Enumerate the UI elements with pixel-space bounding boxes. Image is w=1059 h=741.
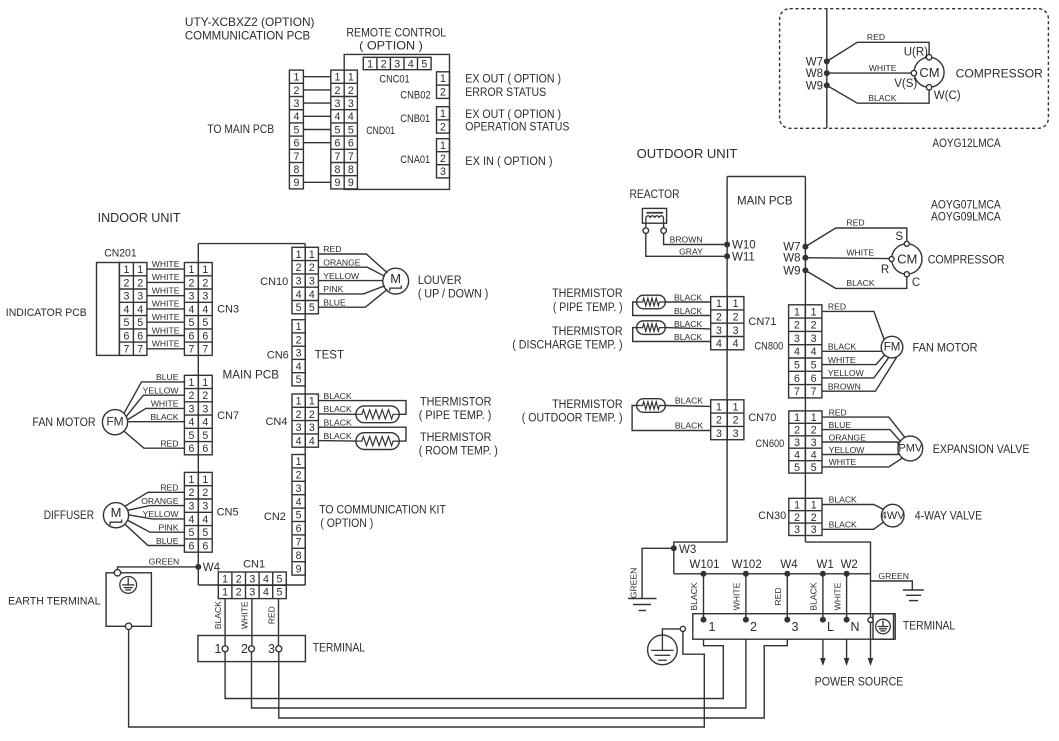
svg-text:2: 2 [137, 277, 143, 289]
svg-text:PINK: PINK [158, 523, 178, 533]
svg-text:1: 1 [440, 108, 446, 120]
earth screw circle small [680, 626, 685, 631]
svg-text:2: 2 [440, 87, 446, 99]
connector CN30 [789, 498, 822, 536]
svg-text:4: 4 [137, 304, 143, 316]
svg-text:1: 1 [348, 72, 354, 84]
svg-text:WHITE: WHITE [152, 299, 180, 309]
svg-text:RED: RED [773, 587, 783, 605]
svg-text:7: 7 [794, 386, 800, 398]
svg-text:4: 4 [408, 58, 414, 70]
svg-text:5: 5 [811, 462, 817, 474]
wire PCB right edge to bus right end [805, 542, 870, 617]
svg-text:BLACK: BLACK [324, 431, 352, 441]
svg-text:BLACK: BLACK [675, 421, 703, 431]
wire bus indoor terminal2 to outdoor terminal2 [252, 639, 746, 708]
svg-text:CNC01: CNC01 [379, 73, 409, 85]
svg-text:5: 5 [794, 360, 800, 372]
svg-text:7: 7 [296, 537, 302, 549]
svg-text:5: 5 [188, 430, 194, 442]
connector CNB01 2-pin [437, 107, 450, 134]
svg-text:BLACK: BLACK [674, 293, 702, 303]
node W8 [806, 68, 830, 80]
svg-text:CN1: CN1 [243, 559, 265, 571]
remote control PCB box [344, 54, 449, 189]
svg-text:CN10: CN10 [260, 276, 288, 288]
svg-text:WHITE: WHITE [833, 582, 843, 610]
svg-text:2: 2 [348, 85, 354, 97]
svg-text:1: 1 [188, 264, 194, 276]
svg-text:W9: W9 [783, 265, 800, 277]
svg-text:( OPTION ): ( OPTION ) [359, 39, 423, 53]
svg-text:W102: W102 [732, 559, 762, 571]
svg-text:BLACK: BLACK [674, 332, 702, 342]
svg-text:2: 2 [296, 335, 302, 347]
wire BLACK FM to CN7-4 [128, 412, 185, 422]
svg-text:EXPANSION VALVE: EXPANSION VALVE [933, 442, 1030, 456]
wire WHITE W8 to compressor V [827, 63, 911, 73]
wire GREEN W3 to ground [629, 548, 674, 598]
svg-text:RED: RED [160, 483, 178, 493]
svg-text:1: 1 [367, 58, 373, 70]
terminal 1 indoor [215, 642, 229, 656]
terminal V(S) [894, 70, 917, 89]
svg-text:6: 6 [188, 540, 194, 552]
svg-text:BLACK: BLACK [829, 519, 857, 529]
svg-text:4: 4 [335, 111, 341, 123]
svg-text:ERROR STATUS: ERROR STATUS [465, 87, 546, 99]
svg-text:7: 7 [202, 344, 208, 356]
svg-text:GREEN: GREEN [878, 571, 909, 581]
svg-text:LOUVER: LOUVER [418, 275, 462, 287]
svg-text:4: 4 [811, 346, 817, 358]
svg-text:WHITE: WHITE [732, 582, 742, 610]
svg-text:4: 4 [188, 417, 194, 429]
power source arrow N [844, 639, 850, 666]
terminal 3 outdoor [784, 617, 798, 634]
svg-text:2: 2 [202, 390, 208, 402]
svg-text:1: 1 [709, 620, 716, 634]
svg-text:TO COMMUNICATION KIT: TO COMMUNICATION KIT [319, 505, 446, 517]
svg-text:3: 3 [811, 333, 817, 345]
svg-text:3: 3 [188, 501, 194, 513]
wire RED W4 to terminal 3 [773, 574, 787, 620]
svg-text:1: 1 [811, 499, 817, 511]
svg-text:CM: CM [897, 252, 917, 267]
svg-text:3: 3 [716, 428, 722, 440]
svg-text:W4: W4 [780, 559, 798, 571]
svg-text:N: N [850, 620, 859, 634]
thermistor pipe temp (indoor) [356, 406, 399, 423]
bus wire W101-W2 [674, 573, 871, 575]
svg-text:W8: W8 [783, 253, 800, 265]
svg-text:2: 2 [733, 415, 739, 427]
wire YELLOW diffuser to CN5-4 [129, 509, 185, 519]
terminal 2 indoor [241, 642, 254, 656]
svg-text:WHITE: WHITE [846, 248, 874, 258]
svg-text:5: 5 [137, 317, 143, 329]
svg-text:1: 1 [794, 499, 800, 511]
svg-text:BLACK: BLACK [675, 395, 703, 405]
svg-text:( OPTION ): ( OPTION ) [320, 518, 373, 530]
svg-text:DIFFUSER: DIFFUSER [44, 508, 95, 522]
svg-text:4: 4 [296, 496, 302, 508]
svg-text:3: 3 [268, 642, 275, 656]
svg-text:CNB02: CNB02 [400, 90, 430, 102]
svg-text:3: 3 [811, 437, 817, 449]
svg-text:L: L [827, 620, 834, 634]
louver motor M [383, 268, 409, 294]
svg-text:2: 2 [123, 277, 129, 289]
diffuser motor M [103, 503, 128, 528]
svg-text:CN7: CN7 [217, 410, 239, 422]
wire YELLOW FM to CN7-2 [126, 385, 185, 417]
svg-text:W8: W8 [806, 68, 823, 80]
node W4 outdoor [780, 559, 798, 577]
label THERMISTOR OUTDOOR TEMP [522, 399, 623, 425]
svg-text:RED: RED [160, 438, 178, 448]
svg-text:CND01: CND01 [366, 125, 395, 137]
svg-text:2: 2 [236, 573, 242, 585]
wires between TO MAIN PCB connector and CND01 [303, 77, 330, 183]
svg-text:1: 1 [440, 73, 446, 85]
svg-text:YELLOW: YELLOW [323, 271, 360, 281]
svg-text:COMPRESSOR: COMPRESSOR [956, 66, 1044, 80]
svg-text:1: 1 [202, 474, 208, 486]
svg-text:1: 1 [123, 264, 129, 276]
svg-text:BLUE: BLUE [156, 372, 179, 382]
earth terminal bottom screw [125, 623, 131, 629]
svg-text:6: 6 [794, 373, 800, 385]
wire BLACK thermistor1 to CN71-1 [665, 293, 710, 303]
thermistor pipe temp sensor [637, 295, 666, 309]
svg-text:1: 1 [296, 396, 302, 408]
svg-text:THERMISTOR: THERMISTOR [420, 432, 491, 444]
svg-text:3: 3 [137, 291, 143, 303]
node W7 [806, 56, 830, 68]
svg-text:5: 5 [348, 124, 354, 136]
svg-text:1: 1 [440, 140, 446, 152]
svg-text:W9: W9 [806, 80, 823, 92]
svg-text:W3: W3 [679, 544, 696, 556]
svg-text:( PIPE TEMP. ): ( PIPE TEMP. ) [419, 410, 492, 422]
svg-text:CNB01: CNB01 [400, 113, 430, 125]
connector CNB02 2-pin [437, 72, 450, 99]
earth screw terminal outdoor [868, 617, 873, 622]
svg-text:3: 3 [792, 620, 799, 634]
svg-text:YELLOW: YELLOW [829, 445, 866, 455]
svg-text:COMPRESSOR: COMPRESSOR [928, 252, 1005, 266]
terminal U(R) [904, 46, 932, 60]
svg-text:3: 3 [733, 325, 739, 337]
svg-text:2: 2 [716, 311, 722, 323]
svg-text:7: 7 [137, 344, 143, 356]
terminal W(C) [926, 85, 960, 102]
svg-text:BLACK: BLACK [868, 93, 896, 103]
svg-text:WHITE: WHITE [828, 355, 856, 365]
svg-text:1: 1 [296, 456, 302, 468]
svg-text:BLACK: BLACK [689, 582, 699, 610]
svg-text:4: 4 [794, 449, 800, 461]
svg-text:REACTOR: REACTOR [630, 187, 680, 201]
svg-text:YELLOW: YELLOW [143, 509, 180, 519]
indoor terminal block [198, 636, 306, 662]
svg-text:1: 1 [733, 298, 739, 310]
svg-text:GREEN: GREEN [149, 557, 180, 567]
earth symbol in outdoor terminal [876, 619, 891, 634]
svg-text:CN600: CN600 [756, 438, 785, 450]
svg-text:S: S [895, 231, 903, 243]
svg-text:1: 1 [222, 573, 228, 585]
svg-text:3: 3 [293, 98, 299, 110]
label AOYG07LMCA AOYG09LMCA [931, 198, 1001, 224]
svg-text:1: 1 [716, 298, 722, 310]
svg-text:1: 1 [188, 474, 194, 486]
svg-text:CN6: CN6 [267, 349, 289, 361]
svg-text:1: 1 [137, 264, 143, 276]
svg-text:WHITE: WHITE [239, 601, 249, 629]
svg-text:9: 9 [335, 177, 341, 189]
node W7 outdoor [783, 242, 808, 254]
svg-text:FAN MOTOR: FAN MOTOR [913, 341, 978, 355]
svg-text:W7: W7 [806, 56, 823, 68]
wire BLACK W1 to terminal L [809, 574, 823, 620]
svg-text:4: 4 [716, 338, 722, 350]
svg-text:5: 5 [335, 124, 341, 136]
wire BLACK CN1-1 to terminal 1 [213, 599, 225, 646]
svg-text:2: 2 [794, 512, 800, 524]
svg-text:BLACK: BLACK [846, 278, 874, 288]
wire ORANGE CN600-3 to PMV [822, 432, 898, 444]
indoor MAIN PCB box [198, 244, 305, 585]
ground symbol right of outdoor terminal [903, 590, 924, 601]
svg-text:WHITE: WHITE [152, 272, 180, 282]
svg-text:R: R [881, 264, 889, 276]
label TO COMMUNICATION KIT [319, 505, 446, 530]
svg-text:4: 4 [733, 338, 739, 350]
earth symbol indoor [120, 577, 137, 594]
svg-text:BLACK: BLACK [828, 342, 856, 352]
svg-text:4: 4 [296, 435, 302, 447]
svg-text:8: 8 [348, 164, 354, 176]
svg-text:2: 2 [202, 277, 208, 289]
terminal L [820, 617, 834, 634]
svg-text:6: 6 [188, 443, 194, 455]
svg-text:BLUE: BLUE [323, 297, 346, 307]
label THERMISTOR PIPE TEMP indoor [419, 396, 492, 422]
svg-text:9: 9 [348, 177, 354, 189]
svg-text:WHITE: WHITE [152, 325, 180, 335]
svg-text:RED: RED [267, 606, 277, 624]
svg-text:FM: FM [106, 414, 123, 428]
svg-text:5: 5 [202, 317, 208, 329]
svg-text:6: 6 [293, 138, 299, 150]
connector CN71 [711, 297, 744, 350]
svg-text:5: 5 [277, 573, 283, 585]
svg-text:RED: RED [828, 302, 846, 312]
svg-text:THERMISTOR: THERMISTOR [552, 326, 623, 338]
svg-text:3: 3 [202, 403, 208, 415]
svg-text:2: 2 [794, 425, 800, 437]
svg-text:V(S): V(S) [894, 78, 917, 90]
svg-text:ORANGE: ORANGE [323, 257, 361, 267]
svg-text:1: 1 [222, 587, 228, 599]
svg-text:1: 1 [296, 321, 302, 333]
svg-text:4: 4 [811, 449, 817, 461]
label LOUVER UP/DOWN [418, 275, 489, 300]
svg-text:3: 3 [794, 333, 800, 345]
wire GREEN to right ground [871, 571, 913, 590]
svg-text:4: 4 [202, 417, 208, 429]
svg-text:1: 1 [794, 306, 800, 318]
svg-text:7: 7 [811, 386, 817, 398]
svg-text:FAN MOTOR: FAN MOTOR [32, 415, 95, 429]
svg-text:UTY-XCBXZ2 (OPTION): UTY-XCBXZ2 (OPTION) [185, 15, 315, 29]
svg-text:5: 5 [811, 360, 817, 372]
svg-text:3: 3 [123, 291, 129, 303]
connector CN2 [292, 455, 305, 576]
wire outdoor earth to screw circle [662, 629, 680, 635]
wire RED W7 to compressor U [827, 32, 929, 61]
svg-text:REMOTE CONTROL: REMOTE CONTROL [346, 26, 446, 40]
earth terminal top screw [114, 570, 120, 576]
wire bus indoor earth to outdoor earth [129, 630, 705, 728]
svg-text:3: 3 [249, 573, 255, 585]
connector TO MAIN PCB 9-pin [289, 70, 303, 189]
connector CN4 [292, 394, 318, 447]
svg-text:1: 1 [811, 412, 817, 424]
svg-text:BLACK: BLACK [829, 495, 857, 505]
svg-text:( PIPE TEMP. ): ( PIPE TEMP. ) [553, 302, 623, 314]
svg-text:U(R): U(R) [904, 46, 928, 58]
thermistor discharge temp sensor [637, 321, 666, 335]
svg-text:2: 2 [293, 85, 299, 97]
wire BLACK thermistor2 to CN71-4 [633, 328, 711, 342]
svg-text:1: 1 [309, 396, 315, 408]
wire PINK CN10-4 to louver [318, 284, 385, 294]
svg-text:BLACK: BLACK [324, 417, 352, 427]
power source arrow L [820, 639, 826, 666]
svg-text:ORANGE: ORANGE [829, 432, 867, 442]
svg-text:THERMISTOR: THERMISTOR [420, 396, 491, 408]
svg-text:COMMUNICATION PCB: COMMUNICATION PCB [185, 29, 310, 43]
svg-text:6: 6 [188, 330, 194, 342]
svg-text:2: 2 [440, 121, 446, 133]
node W9 [806, 80, 830, 92]
svg-text:INDICATOR PCB: INDICATOR PCB [6, 307, 87, 319]
svg-text:RED: RED [846, 218, 864, 228]
svg-text:1: 1 [811, 306, 817, 318]
svg-text:4: 4 [296, 361, 302, 373]
svg-text:6: 6 [137, 330, 143, 342]
svg-text:4: 4 [202, 514, 208, 526]
svg-text:5: 5 [296, 510, 302, 522]
svg-text:BLACK: BLACK [213, 601, 223, 629]
svg-text:6: 6 [348, 138, 354, 150]
expansion valve PMV [898, 436, 923, 461]
svg-text:4: 4 [202, 304, 208, 316]
wire WHITE W102 to terminal 2 [732, 574, 746, 620]
svg-text:2: 2 [188, 277, 194, 289]
svg-text:FM: FM [884, 341, 901, 353]
svg-text:GREEN: GREEN [629, 568, 639, 599]
svg-text:THERMISTOR: THERMISTOR [552, 399, 623, 411]
indoor fan motor FM [102, 410, 127, 435]
svg-text:EX OUT ( OPTION ): EX OUT ( OPTION ) [465, 109, 561, 121]
svg-text:CNA01: CNA01 [400, 154, 430, 166]
svg-text:4: 4 [348, 111, 354, 123]
svg-text:1: 1 [733, 401, 739, 413]
svg-text:2: 2 [236, 587, 242, 599]
svg-text:2: 2 [296, 470, 302, 482]
wire GRAY reactor to W11 [646, 233, 727, 256]
svg-text:C: C [912, 277, 920, 289]
wire BLACK thermistor1 to CN71-2 [633, 302, 711, 316]
wire RED CN1-5 to terminal 3 [267, 599, 279, 646]
outdoor chassis earth symbol [648, 635, 678, 665]
svg-text:1: 1 [202, 377, 208, 389]
svg-text:5: 5 [309, 302, 315, 314]
svg-text:6: 6 [123, 330, 129, 342]
wire YELLOW CN10-3 to louver [318, 271, 382, 281]
connector CN5 [184, 472, 212, 552]
svg-text:3: 3 [249, 587, 255, 599]
terminal S [895, 231, 909, 246]
label EX OUT ERROR STATUS [465, 74, 561, 100]
svg-text:M: M [390, 271, 401, 286]
node W11 [724, 251, 755, 263]
wire GREEN W4 to earth terminal [118, 557, 199, 570]
svg-text:6: 6 [296, 523, 302, 535]
wire PINK diffuser to CN5-5 [127, 520, 184, 533]
compressor motor CM (outdoor) [892, 244, 922, 274]
svg-text:3: 3 [202, 291, 208, 303]
fan motor FM (outdoor) [881, 336, 903, 358]
svg-text:2: 2 [296, 409, 302, 421]
wire RED CN800-1 to fan motor [822, 302, 885, 341]
svg-text:RED: RED [323, 244, 341, 254]
svg-text:THERMISTOR: THERMISTOR [552, 288, 623, 300]
svg-text:BLACK: BLACK [150, 412, 178, 422]
svg-text:1: 1 [202, 264, 208, 276]
svg-text:4: 4 [263, 587, 269, 599]
svg-text:ORANGE: ORANGE [141, 496, 179, 506]
wire BLACK CN4-4 to thermistor2 left [318, 431, 355, 441]
svg-text:9: 9 [293, 177, 299, 189]
svg-text:5: 5 [794, 462, 800, 474]
svg-text:CN71: CN71 [748, 316, 776, 328]
svg-text:4: 4 [293, 111, 299, 123]
svg-text:MAIN PCB: MAIN PCB [737, 194, 793, 208]
svg-text:8: 8 [296, 550, 302, 562]
svg-text:4: 4 [794, 346, 800, 358]
svg-text:3: 3 [394, 58, 400, 70]
node W2 [841, 559, 858, 577]
svg-text:PINK: PINK [323, 284, 343, 294]
svg-text:4: 4 [309, 289, 315, 301]
wire BLACK thermistor3 to CN70-3 [632, 406, 711, 431]
wire WHITE CN800-5 to fan motor [822, 355, 885, 365]
svg-text:6: 6 [202, 330, 208, 342]
svg-text:2: 2 [381, 58, 387, 70]
connector CN600 [789, 411, 822, 474]
wire BLACK W9 to compressor W [827, 85, 929, 103]
terminal 3 indoor [268, 642, 282, 656]
connector CN70 [711, 400, 744, 440]
svg-text:W11: W11 [732, 251, 755, 263]
svg-text:WHITE: WHITE [151, 399, 179, 409]
svg-text:5: 5 [188, 317, 194, 329]
